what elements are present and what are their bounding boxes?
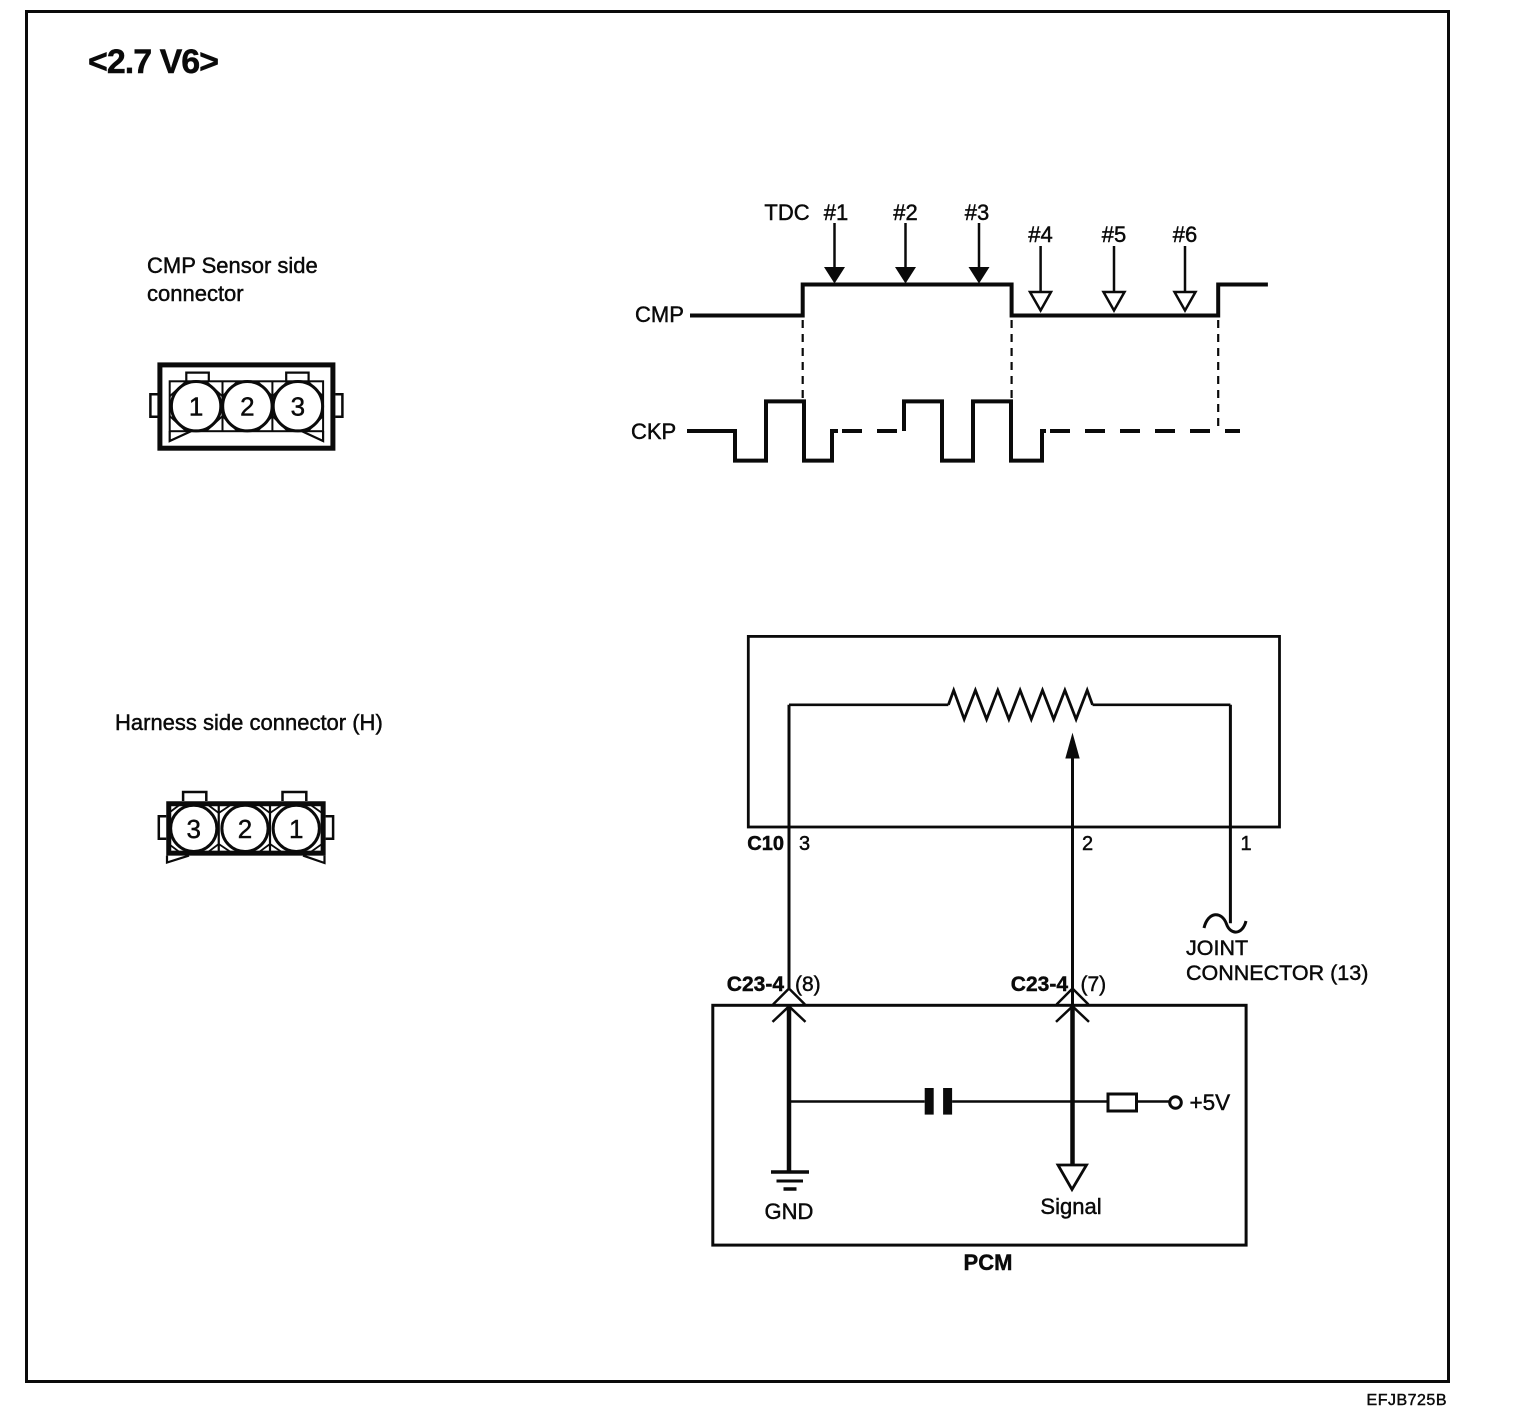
arrow TDC #5 open [1104,246,1125,311]
svg-text:C23-4: C23-4 [727,973,785,996]
wire resistor right lead [1093,703,1231,706]
svg-text:PCM: PCM [964,1250,1013,1275]
svg-text:2: 2 [1082,833,1093,855]
arrow TDC #6 open [1175,246,1196,311]
arrow pickup [1065,733,1079,759]
left tab [159,816,167,839]
pin cavity 3 [171,805,217,851]
svg-text:2: 2 [238,814,252,844]
svg-text:3: 3 [291,392,305,422]
CKP waveform solid 1 [687,401,838,460]
pin cavity 1 [171,382,220,431]
shell [169,804,323,853]
svg-text:#2: #2 [893,200,917,225]
svg-text:C23-4: C23-4 [1011,973,1069,996]
svg-text:EFJB725B: EFJB725B [1367,1392,1447,1409]
bottom key left [167,856,189,863]
cavity band [170,381,323,431]
CKP dashed 2 [1050,429,1240,433]
signal arrow open [1058,1165,1087,1190]
CKP waveform solid 2 [904,401,1046,460]
label C23-4 (8) [727,973,821,996]
svg-text:#6: #6 [1173,222,1197,247]
wire pin 1 [1229,705,1232,924]
top tab pin1 [283,792,307,801]
svg-text:#5: #5 [1102,222,1126,247]
divider 2 [271,381,273,431]
connector symbol C23-4 (7) [1056,989,1089,1022]
arrow TDC #4 open [1030,246,1051,311]
divider 1 [218,803,220,853]
capacitor C [925,1088,952,1115]
svg-text:CMP: CMP [635,302,684,327]
svg-text:#4: #4 [1028,222,1052,247]
right tab [326,816,334,839]
wire resistor to +5V [1137,1100,1170,1103]
wire capacitor left [789,1100,925,1103]
arrow TDC #2 [895,223,916,284]
PCM box [713,1005,1246,1245]
svg-text:connector: connector [147,281,244,306]
svg-text:(7): (7) [1081,973,1107,996]
wire GND [787,1005,792,1172]
connector harness side [159,792,333,863]
top tab pin3 [286,373,308,382]
svg-text:3: 3 [799,833,810,855]
right tab [335,394,342,416]
svg-text:<2.7 V6>: <2.7 V6> [88,43,218,81]
CMP sensor box [748,636,1279,827]
corner chamfers [169,804,322,853]
divider 1 [222,381,224,431]
svg-text:TDC: TDC [764,200,809,225]
pin cavity 2 [222,805,268,851]
label C23-4 (7) [1011,973,1106,996]
svg-text:Signal: Signal [1040,1194,1101,1219]
bottom key right [303,856,325,863]
arrow TDC #3 [969,223,990,284]
svg-text:C10: C10 [747,833,784,855]
wire resistor left lead [789,703,948,706]
svg-text:JOINT: JOINT [1186,936,1248,960]
divider 2 [269,803,271,853]
svg-text:GND: GND [765,1199,814,1224]
CMP waveform [690,285,1268,316]
wire pin 2 [1071,757,1074,1004]
svg-text:#1: #1 [824,200,848,225]
svg-text:#3: #3 [965,200,989,225]
CKP dashed 1 [842,429,904,433]
svg-text:2: 2 [240,392,254,422]
svg-text:1: 1 [1241,833,1252,855]
dashed line CMP rise 2 [1217,320,1219,429]
svg-text:CONNECTOR (13): CONNECTOR (13) [1186,961,1368,985]
pin cavity 2 [223,382,272,431]
wire Signal [1070,1005,1075,1164]
svg-text:1: 1 [189,392,203,422]
wire capacitor right to resistor [952,1100,1108,1103]
outer shell [160,365,333,448]
svg-text:+5V: +5V [1190,1090,1231,1115]
joint connector squiggle [1204,915,1246,932]
top tab pin1 [186,373,209,382]
arrow TDC #1 [824,223,845,284]
bottom key left [170,431,191,441]
dashed line CMP fall [1010,320,1012,400]
top tab pin3 [183,792,206,801]
node +5V circle [1170,1097,1182,1109]
resistor (pull-up) [1108,1094,1137,1111]
bottom key right [302,431,323,441]
dashed line CMP rise [802,320,804,400]
svg-text:1: 1 [289,814,303,844]
label JOINT CONNECTOR (13) [1186,936,1368,985]
pin cavity 1 [273,805,319,851]
resistor (sensor element) [948,690,1092,719]
corner chamfers [170,381,323,431]
svg-text:3: 3 [187,814,201,844]
connector symbol C23-4 (8) [773,989,806,1022]
svg-text:(8): (8) [795,973,821,996]
svg-text:Harness side connector (H): Harness side connector (H) [115,710,383,735]
connector CMP sensor side [150,365,342,448]
label CMP Sensor side connector [147,253,318,306]
wire pin 3 [788,705,791,988]
svg-text:CKP: CKP [631,419,676,444]
svg-text:CMP Sensor side: CMP Sensor side [147,253,318,278]
left tab [150,394,157,416]
pin cavity 3 [273,382,322,431]
ground symbol [771,1172,809,1189]
